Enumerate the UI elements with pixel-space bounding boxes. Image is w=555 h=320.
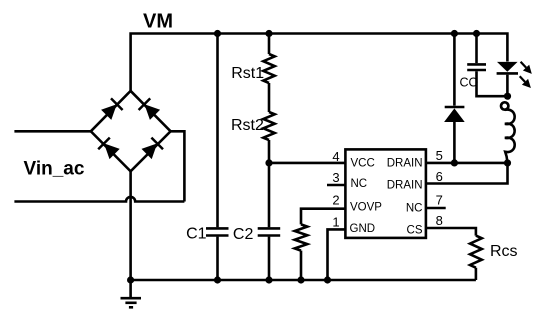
- svg-text:DRAIN: DRAIN: [387, 158, 423, 170]
- svg-text:DRAIN: DRAIN: [387, 179, 423, 191]
- svg-text:5: 5: [436, 148, 443, 163]
- svg-text:Vin_ac: Vin_ac: [24, 158, 85, 179]
- svg-text:VOVP: VOVP: [350, 202, 382, 214]
- svg-text:VM: VM: [143, 10, 173, 32]
- svg-text:NC: NC: [406, 203, 423, 215]
- svg-text:CS: CS: [407, 224, 423, 236]
- svg-text:Rst1: Rst1: [231, 65, 264, 82]
- svg-text:GND: GND: [350, 223, 376, 235]
- svg-text:C1: C1: [186, 226, 207, 243]
- svg-text:VCC: VCC: [351, 157, 375, 169]
- svg-text:C2: C2: [233, 226, 254, 243]
- svg-text:6: 6: [436, 169, 443, 184]
- svg-text:1: 1: [332, 214, 339, 229]
- svg-text:Rst2: Rst2: [231, 117, 264, 134]
- svg-text:CO: CO: [460, 76, 479, 90]
- svg-text:NC: NC: [351, 178, 368, 190]
- svg-text:2: 2: [332, 192, 339, 207]
- svg-text:8: 8: [436, 213, 443, 228]
- svg-text:Rcs: Rcs: [490, 243, 518, 260]
- svg-text:3: 3: [332, 170, 339, 185]
- svg-text:4: 4: [332, 149, 339, 164]
- svg-text:7: 7: [436, 193, 443, 208]
